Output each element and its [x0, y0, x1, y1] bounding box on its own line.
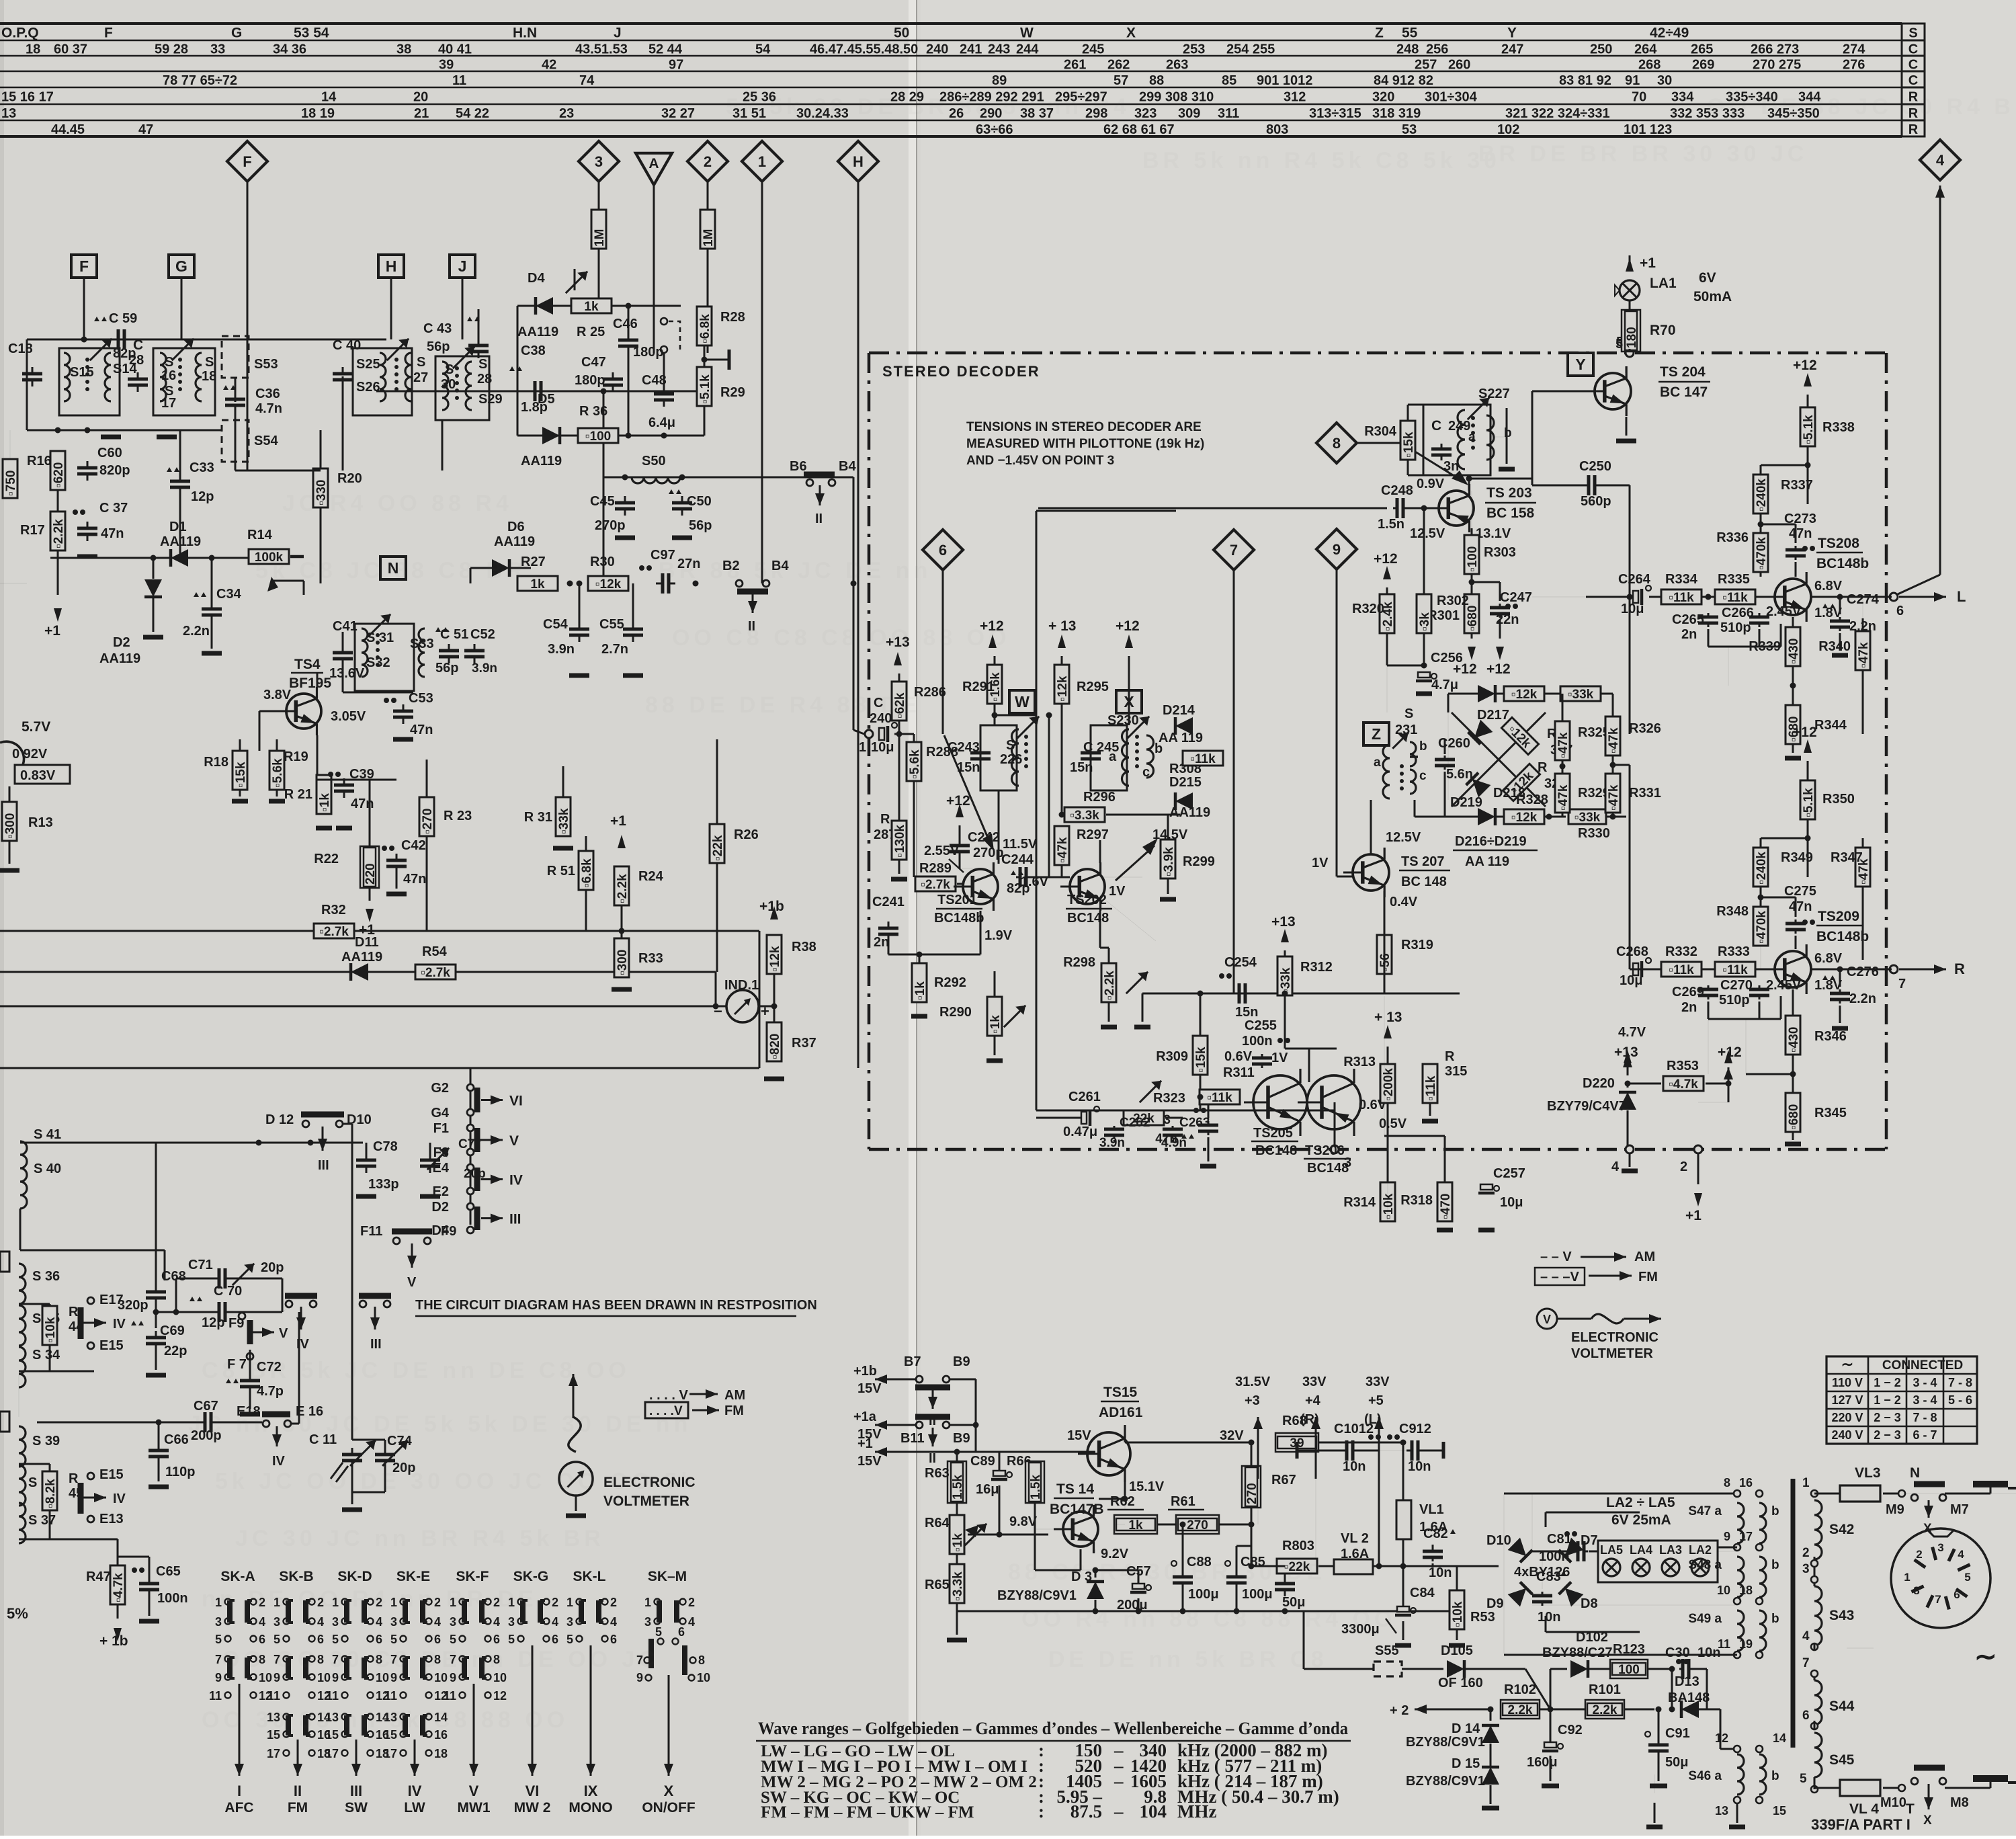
svg-text:S 37: S 37: [28, 1513, 56, 1528]
svg-text:LA5: LA5: [1600, 1543, 1623, 1557]
svg-text:265: 265: [1691, 42, 1713, 57]
svg-text:C 37: C 37: [99, 501, 128, 516]
svg-text:D11: D11: [355, 935, 379, 950]
svg-text:C261: C261: [1068, 1090, 1101, 1104]
svg-text:C8 BR 5k JC DE nn DE C8 OO: C8 BR 5k JC DE nn DE C8 OO: [202, 1358, 630, 1383]
svg-text:320: 320: [1372, 90, 1394, 105]
svg-text:BC148: BC148: [1307, 1161, 1349, 1176]
svg-text:C241: C241: [872, 895, 905, 909]
svg-text:T: T: [1906, 1801, 1915, 1817]
svg-text:III: III: [350, 1783, 362, 1799]
svg-text:C265: C265: [1672, 612, 1704, 627]
svg-text:1.5k: 1.5k: [951, 1475, 965, 1500]
svg-text:S 34: S 34: [32, 1348, 60, 1362]
svg-text:1: 1: [758, 153, 766, 170]
svg-text:2: 2: [610, 1596, 617, 1609]
svg-text:II: II: [815, 512, 823, 526]
svg-text:D102: D102: [1576, 1630, 1608, 1645]
svg-text:50μ: 50μ: [1665, 1755, 1688, 1770]
svg-text:D219: D219: [1450, 795, 1482, 810]
svg-text:8: 8: [1724, 1476, 1730, 1489]
svg-text:6: 6: [939, 542, 947, 559]
svg-text:▫2.7k: ▫2.7k: [421, 966, 450, 980]
svg-text:30: 30: [441, 377, 456, 392]
svg-text:127 V: 127 V: [1831, 1393, 1863, 1407]
svg-text:BZY88/C9V1: BZY88/C9V1: [1406, 1735, 1485, 1750]
svg-text:85: 85: [1222, 73, 1236, 88]
svg-text:D217: D217: [1477, 708, 1509, 723]
svg-text:BC148: BC148: [1255, 1143, 1297, 1158]
svg-text:261: 261: [1064, 58, 1086, 73]
svg-text:270p: 270p: [595, 518, 626, 533]
svg-text:–: –: [1114, 1771, 1124, 1791]
svg-text:5: 5: [1800, 1772, 1807, 1786]
svg-text:AM: AM: [1634, 1250, 1655, 1264]
svg-text:TS 14: TS 14: [1056, 1481, 1094, 1497]
svg-text:20p: 20p: [464, 1167, 486, 1181]
svg-text:7: 7: [215, 1653, 222, 1666]
svg-text:10μ: 10μ: [871, 740, 894, 755]
svg-text:R65: R65: [925, 1578, 950, 1592]
svg-text:E13: E13: [99, 1512, 124, 1526]
svg-text:R70: R70: [1650, 323, 1676, 338]
svg-text:G: G: [231, 26, 242, 41]
svg-text:5: 5: [655, 1625, 662, 1639]
svg-text:Y: Y: [1507, 26, 1517, 41]
svg-text:FM: FM: [288, 1800, 308, 1815]
svg-text:R 36: R 36: [579, 404, 607, 419]
svg-text:803: 803: [1266, 122, 1288, 137]
svg-text:S44: S44: [1829, 1699, 1855, 1714]
svg-text:34 36: 34 36: [273, 42, 306, 57]
svg-text:62 68 61 67: 62 68 61 67: [1103, 122, 1175, 137]
svg-text:+1b: +1b: [853, 1364, 877, 1379]
svg-text:2: 2: [704, 153, 712, 170]
svg-text:0.9V: 0.9V: [1417, 477, 1445, 491]
svg-text:▫2.2k: ▫2.2k: [1103, 971, 1117, 1000]
svg-text:S: S: [165, 355, 173, 370]
svg-text:+12: +12: [946, 793, 970, 809]
svg-text:15V: 15V: [1067, 1428, 1091, 1443]
svg-text:6: 6: [317, 1633, 324, 1646]
svg-text:nn DE OO R4 nn BR DE: nn DE OO R4 nn BR DE: [202, 1586, 538, 1612]
svg-text:C34: C34: [216, 587, 242, 602]
svg-text:R 25: R 25: [577, 325, 605, 339]
svg-text:▫2.7k: ▫2.7k: [921, 878, 950, 892]
svg-text:339F/A PART I: 339F/A PART I: [1811, 1816, 1910, 1833]
svg-text:91: 91: [1625, 73, 1640, 88]
svg-text:2n: 2n: [1681, 627, 1697, 642]
svg-text:560p: 560p: [1581, 494, 1611, 509]
svg-text:S: S: [417, 355, 425, 370]
svg-text:▫15k: ▫15k: [1194, 1047, 1208, 1073]
svg-text:C68: C68: [161, 1269, 186, 1284]
svg-text:S 40: S 40: [34, 1161, 61, 1176]
svg-text:D 14: D 14: [1452, 1721, 1480, 1736]
svg-text:S 41: S 41: [34, 1127, 61, 1142]
svg-text:2.7n: 2.7n: [601, 642, 628, 657]
svg-text:323: 323: [1134, 106, 1157, 121]
svg-text:S: S: [1006, 738, 1015, 753]
svg-text:VI: VI: [526, 1783, 540, 1799]
svg-text:C: C: [1908, 58, 1918, 73]
svg-text:17: 17: [161, 396, 176, 411]
svg-text:TS15: TS15: [1103, 1385, 1138, 1400]
svg-text:R339: R339: [1749, 639, 1781, 654]
svg-text:IV: IV: [408, 1783, 422, 1799]
svg-text:C47: C47: [581, 355, 606, 370]
svg-text:▫430: ▫430: [1787, 1027, 1801, 1053]
svg-text:1 − 2: 1 − 2: [1874, 1376, 1901, 1389]
svg-text:10: 10: [493, 1671, 507, 1684]
svg-text:3: 3: [390, 1615, 397, 1629]
svg-text:VI: VI: [509, 1094, 523, 1109]
svg-text:▫270: ▫270: [421, 809, 435, 834]
svg-text:S33: S33: [410, 637, 434, 651]
svg-text:C 70: C 70: [214, 1284, 242, 1299]
svg-text:3 - 4: 3 - 4: [1913, 1376, 1937, 1389]
svg-text:6V 25mA: 6V 25mA: [1611, 1512, 1671, 1528]
svg-text:R292: R292: [934, 975, 966, 990]
svg-text:C54: C54: [543, 617, 569, 632]
svg-text:8: 8: [698, 1653, 705, 1667]
svg-text:ON/OFF: ON/OFF: [642, 1800, 695, 1815]
svg-text:240 V: 240 V: [1831, 1428, 1863, 1442]
svg-text:R17: R17: [20, 523, 45, 538]
svg-text:15: 15: [1773, 1804, 1786, 1817]
svg-text:H.N: H.N: [513, 26, 537, 41]
svg-text:S45: S45: [1829, 1752, 1855, 1768]
svg-text:13: 13: [1715, 1804, 1728, 1817]
svg-text:254 255: 254 255: [1226, 42, 1275, 57]
svg-text:R37: R37: [792, 1036, 816, 1051]
svg-text:R18: R18: [204, 755, 228, 770]
svg-text:100: 100: [1618, 1663, 1640, 1677]
svg-text:▫680: ▫680: [1787, 1104, 1801, 1130]
svg-text:Wave ranges – Golfgebieden – G: Wave ranges – Golfgebieden – Gammes d’on…: [758, 1719, 1348, 1738]
svg-text:1.8V: 1.8V: [1814, 606, 1843, 620]
svg-text:10μ: 10μ: [1620, 973, 1642, 988]
svg-text:88: 88: [1149, 73, 1164, 88]
svg-text:3: 3: [508, 1615, 515, 1629]
svg-text:264: 264: [1634, 42, 1657, 57]
svg-text:▫12k: ▫12k: [1511, 811, 1538, 825]
svg-text:226: 226: [1000, 752, 1022, 767]
svg-text:OO R4 nn 88 C8 88 R4 OO: OO R4 nn 88 C8 88 R4 OO: [1021, 1606, 1396, 1632]
svg-text:1V: 1V: [1312, 856, 1329, 870]
svg-text:S54: S54: [254, 434, 278, 448]
svg-text:5.6n: 5.6n: [1446, 767, 1473, 782]
svg-text:1.6V: 1.6V: [1021, 874, 1049, 889]
svg-text:257: 257: [1415, 58, 1437, 73]
svg-text:W: W: [1015, 693, 1030, 710]
svg-text:▫11k: ▫11k: [1190, 752, 1216, 766]
svg-text:X: X: [1126, 26, 1136, 41]
svg-text:C41: C41: [333, 619, 358, 634]
svg-text:12p: 12p: [202, 1315, 224, 1330]
svg-text:5 - 6: 5 - 6: [1948, 1393, 1972, 1407]
svg-text:▫5.1k: ▫5.1k: [1802, 415, 1816, 444]
svg-text:SK-L: SK-L: [573, 1569, 606, 1584]
svg-text:101 123: 101 123: [1624, 122, 1672, 137]
svg-text:TS 207: TS 207: [1401, 854, 1444, 869]
svg-text:A: A: [648, 156, 659, 171]
svg-text:b: b: [1771, 1558, 1779, 1572]
svg-text:V: V: [407, 1275, 417, 1290]
svg-text:6V: 6V: [1699, 270, 1716, 286]
svg-text:5k 5k 88 DE BR 88 5k nn R4: 5k 5k 88 DE BR 88 5k nn R4: [726, 94, 1130, 120]
svg-text:R330: R330: [1578, 826, 1610, 841]
svg-text:10: 10: [1717, 1584, 1730, 1597]
svg-text:+1: +1: [857, 1436, 873, 1451]
svg-text:247: 247: [1501, 42, 1523, 57]
svg-text:47n: 47n: [101, 526, 124, 541]
svg-text:+ 1b: + 1b: [99, 1633, 128, 1649]
svg-text:– – –V: – – –V: [1540, 1270, 1579, 1284]
svg-text:2.2k: 2.2k: [1593, 1703, 1618, 1717]
svg-text:C77: C77: [458, 1137, 482, 1151]
svg-text:VL3: VL3: [1855, 1465, 1881, 1481]
svg-text:▫3.3k: ▫3.3k: [1070, 809, 1099, 823]
svg-text:OO 30 88 nn 5k C8 88 OO: OO 30 88 nn 5k C8 88 OO: [202, 1707, 569, 1733]
svg-text:16: 16: [1739, 1476, 1753, 1489]
svg-text:BC 148: BC 148: [1401, 874, 1447, 889]
svg-text:+ 13: + 13: [1374, 1010, 1402, 1025]
svg-text:LW: LW: [404, 1800, 425, 1815]
svg-text:▫8.2k: ▫8.2k: [44, 1479, 58, 1508]
svg-text:F1: F1: [433, 1121, 449, 1136]
svg-text:J: J: [458, 257, 467, 275]
svg-text:R22: R22: [314, 852, 339, 866]
svg-text:▫470k: ▫470k: [1755, 911, 1769, 944]
svg-text:23: 23: [559, 106, 574, 121]
svg-text:R38: R38: [792, 940, 816, 954]
svg-text:R347: R347: [1831, 850, 1863, 865]
svg-text:6: 6: [552, 1633, 558, 1646]
svg-text:240: 240: [926, 42, 948, 57]
svg-text:▫22k: ▫22k: [711, 835, 725, 861]
svg-text:299 308 310: 299 308 310: [1139, 90, 1214, 105]
svg-text:110 V: 110 V: [1832, 1376, 1863, 1389]
svg-text:5: 5: [390, 1633, 397, 1646]
svg-text:10μ: 10μ: [1500, 1195, 1523, 1210]
svg-text:C266: C266: [1722, 606, 1754, 620]
svg-text:1.8V: 1.8V: [1814, 978, 1843, 993]
svg-text:R338: R338: [1822, 420, 1855, 435]
svg-text:▫430: ▫430: [1787, 639, 1801, 664]
svg-text:F: F: [104, 26, 113, 41]
svg-text:11: 11: [209, 1689, 222, 1703]
svg-text:▫12k: ▫12k: [768, 946, 782, 972]
svg-text:▫100: ▫100: [585, 430, 611, 444]
svg-text:II: II: [929, 1451, 936, 1466]
svg-text:OO DE 88 JC 30 R4 BR 30: OO DE 88 JC 30 R4 BR 30: [1707, 94, 2016, 120]
svg-text:MHz: MHz: [1177, 1801, 1216, 1822]
svg-text:R54: R54: [422, 944, 448, 959]
svg-text:F9: F9: [441, 1224, 456, 1239]
svg-text:+12: +12: [1374, 551, 1398, 567]
svg-text:R29: R29: [720, 385, 745, 400]
svg-text:10μ: 10μ: [1621, 602, 1644, 616]
svg-text:5: 5: [508, 1633, 515, 1646]
svg-text:1.5n: 1.5n: [1378, 517, 1404, 532]
svg-text:. . . . V: . . . . V: [649, 1388, 688, 1403]
svg-text:SK–M: SK–M: [648, 1569, 687, 1584]
svg-text:III: III: [509, 1212, 521, 1227]
svg-text:3: 3: [1802, 1562, 1810, 1576]
svg-text:R803: R803: [1282, 1539, 1314, 1553]
svg-text:▫10k: ▫10k: [1451, 1601, 1465, 1627]
svg-text:9: 9: [1333, 541, 1341, 558]
svg-text:F9: F9: [228, 1316, 244, 1331]
svg-text:50: 50: [894, 26, 909, 41]
svg-text:4.7μ: 4.7μ: [1431, 678, 1458, 692]
svg-text:IV: IV: [113, 1317, 126, 1332]
svg-text:TS4: TS4: [294, 657, 321, 672]
svg-text:▫680: ▫680: [1466, 606, 1480, 631]
svg-text:R: R: [1908, 122, 1919, 137]
svg-text:M7: M7: [1950, 1502, 1969, 1517]
svg-text:88 C8 R4 30 BR 30 DE: 88 C8 R4 30 BR 30 DE: [1008, 1559, 1326, 1585]
svg-text:5k JC OO DE 30 OO JC OO OO 5k: 5k JC OO DE 30 OO JC OO OO 5k: [215, 1469, 698, 1494]
svg-text:▫5.1k: ▫5.1k: [698, 374, 712, 404]
svg-text:R311: R311: [1223, 1065, 1255, 1080]
svg-text:S49 a: S49 a: [1688, 1612, 1722, 1626]
svg-text:320p: 320p: [118, 1298, 149, 1313]
svg-text:0.5V: 0.5V: [1379, 1116, 1407, 1131]
svg-text:AA119: AA119: [494, 534, 535, 549]
svg-text:J: J: [614, 26, 622, 41]
svg-text:AA119: AA119: [521, 454, 562, 468]
svg-text:7 - 8: 7 - 8: [1948, 1376, 1972, 1389]
svg-text:R350: R350: [1822, 792, 1855, 807]
svg-text:1: 1: [1904, 1571, 1910, 1584]
svg-text:R 21: R 21: [284, 787, 312, 802]
svg-text:7: 7: [1230, 542, 1238, 559]
svg-text:S: S: [1908, 26, 1917, 41]
svg-text:BA148: BA148: [1668, 1690, 1710, 1705]
svg-text:4: 4: [1611, 1159, 1620, 1174]
svg-text:R332: R332: [1665, 944, 1697, 959]
svg-text:▫2.2k: ▫2.2k: [616, 874, 630, 903]
svg-text:S43: S43: [1829, 1608, 1854, 1623]
svg-text:C46: C46: [613, 317, 638, 331]
svg-text:C69: C69: [160, 1323, 185, 1338]
svg-text:0 92V: 0 92V: [12, 747, 48, 762]
svg-text:D105: D105: [1441, 1643, 1473, 1658]
svg-text:R26: R26: [734, 827, 759, 842]
svg-text:▫2.2k: ▫2.2k: [52, 519, 66, 548]
svg-text:R304: R304: [1364, 424, 1397, 439]
svg-text:BC148: BC148: [1067, 911, 1109, 926]
svg-text:56p: 56p: [435, 661, 458, 676]
svg-text:JC R4 OO 88 R4: JC R4 OO 88 R4: [282, 491, 513, 516]
svg-text:100μ: 100μ: [1188, 1587, 1219, 1602]
svg-text:C 59: C 59: [109, 311, 137, 326]
svg-text:R63: R63: [925, 1466, 950, 1481]
svg-text:▫470k: ▫470k: [1755, 537, 1769, 570]
svg-text:180p: 180p: [575, 373, 605, 388]
svg-text:c: c: [1142, 765, 1150, 780]
svg-text:R: R: [880, 812, 890, 827]
svg-text:H: H: [386, 257, 397, 275]
svg-text:C55: C55: [599, 617, 624, 632]
svg-text:▫47k: ▫47k: [1556, 732, 1570, 758]
svg-text:– – V: – – V: [1540, 1250, 1572, 1264]
svg-text:C257: C257: [1493, 1166, 1525, 1181]
svg-text:BC 158: BC 158: [1486, 505, 1535, 521]
svg-text:SK-D: SK-D: [337, 1569, 372, 1584]
svg-text:4.9n: 4.9n: [1161, 1136, 1187, 1150]
svg-text:b: b: [1419, 739, 1427, 753]
svg-text:276: 276: [1843, 58, 1865, 73]
svg-text:510p: 510p: [1720, 620, 1751, 635]
svg-text:3.8V: 3.8V: [263, 688, 292, 702]
svg-text:21: 21: [414, 106, 429, 121]
svg-text:47n: 47n: [403, 872, 426, 887]
svg-text:33V: 33V: [1302, 1375, 1327, 1389]
svg-text:G2: G2: [431, 1081, 449, 1096]
svg-text:160μ: 160μ: [1527, 1755, 1558, 1770]
svg-text:b: b: [1504, 426, 1512, 440]
svg-text:10n: 10n: [1697, 1645, 1720, 1660]
svg-text:2.2k: 2.2k: [1508, 1703, 1533, 1717]
svg-text:0.4V: 0.4V: [1390, 895, 1418, 909]
svg-text:M10: M10: [1880, 1795, 1906, 1810]
svg-text:C 43: C 43: [423, 321, 452, 336]
svg-text:12: 12: [1715, 1731, 1728, 1745]
svg-text:b: b: [1771, 1504, 1779, 1518]
svg-text:2 − 3: 2 − 3: [1874, 1428, 1901, 1442]
svg-text:R30: R30: [590, 555, 615, 569]
svg-text:▫130k: ▫130k: [893, 825, 907, 858]
svg-text:D1: D1: [169, 520, 187, 534]
svg-text:R326: R326: [1629, 721, 1661, 736]
svg-text:Y: Y: [1575, 356, 1585, 373]
svg-text:I: I: [237, 1783, 241, 1799]
svg-text:B4: B4: [839, 459, 856, 474]
svg-text:20: 20: [413, 90, 428, 105]
svg-text:R14: R14: [247, 528, 273, 542]
svg-text:11: 11: [452, 73, 466, 88]
svg-text:315: 315: [1445, 1064, 1467, 1079]
svg-text:C242: C242: [968, 830, 1000, 845]
svg-text:6.8V: 6.8V: [1814, 951, 1843, 966]
svg-text:R291: R291: [962, 680, 995, 694]
svg-text:▫820: ▫820: [768, 1034, 782, 1059]
svg-text:THE CIRCUIT DIAGRAM HAS BEEN D: THE CIRCUIT DIAGRAM HAS BEEN DRAWN IN RE…: [415, 1298, 817, 1313]
svg-text:321 322 324÷331: 321 322 324÷331: [1505, 106, 1610, 121]
svg-text:7: 7: [1898, 977, 1906, 991]
svg-text:S26: S26: [356, 380, 380, 395]
svg-text:C 40: C 40: [333, 338, 361, 353]
svg-text:1k: 1k: [1128, 1518, 1143, 1532]
svg-text:D9: D9: [1486, 1596, 1504, 1611]
svg-text:+12: +12: [1793, 725, 1817, 740]
svg-text:6.4μ: 6.4μ: [648, 415, 675, 430]
svg-text:78 77 65÷72: 78 77 65÷72: [163, 73, 237, 88]
svg-text:R312: R312: [1300, 960, 1333, 975]
svg-text:14: 14: [1773, 1731, 1786, 1745]
svg-text:C1012: C1012: [1334, 1422, 1374, 1436]
svg-text:BC148b: BC148b: [934, 911, 984, 926]
svg-text:S 31: S 31: [366, 630, 394, 645]
svg-text:1.9V: 1.9V: [984, 928, 1013, 943]
svg-text:G: G: [175, 257, 187, 275]
svg-text:FM – FM – FM – UKW – FM: FM – FM – FM – UKW – FM: [761, 1803, 974, 1822]
svg-text:+13: +13: [1271, 914, 1296, 930]
svg-text:C: C: [1908, 42, 1918, 57]
